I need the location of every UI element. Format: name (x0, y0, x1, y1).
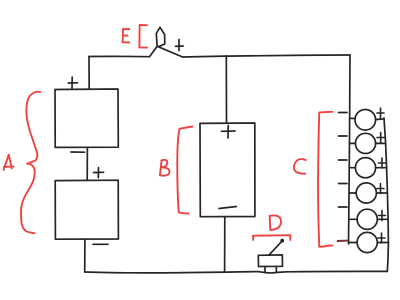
cell C6 minus label (338, 240, 348, 242)
wire B top riser (225, 56, 227, 123)
battery A1 plus label (68, 77, 77, 88)
cell C4 minus label (339, 183, 348, 185)
label D letter (270, 215, 281, 229)
cell C5 left stub (349, 218, 357, 220)
cell C5 (357, 209, 377, 229)
cell C6 (357, 232, 377, 252)
wire right vertical / cells left bus (349, 55, 351, 244)
label E bracket (139, 25, 147, 48)
battery B minus label (219, 207, 236, 209)
wire rect1 top riser (88, 57, 90, 90)
cell C3 plus label (379, 158, 386, 168)
battery B plus label (222, 126, 236, 139)
label B letter (160, 160, 170, 176)
switch D right leg (275, 266, 277, 272)
cell C6 left stub (349, 242, 358, 244)
switch D left leg (264, 267, 266, 273)
plus label at switch output (176, 40, 184, 51)
label E letter (123, 29, 130, 42)
label A letter (4, 155, 14, 170)
label B bracket (177, 127, 192, 214)
cell C4 left stub (349, 192, 356, 194)
wire top right horizontal (183, 55, 351, 57)
cell C2 right stub (376, 142, 386, 144)
cell C2 plus label (377, 133, 385, 143)
cell C2 minus label (339, 135, 348, 137)
battery A1 minus label (71, 151, 85, 153)
cell C5 plus label (379, 211, 386, 221)
switch D lever knob (280, 239, 284, 243)
switch E left blade diagonal (150, 47, 158, 57)
cell C6 right stub (377, 242, 388, 244)
cell C4 right stub (376, 192, 387, 194)
cell C6 plus label (378, 233, 385, 243)
wire B bottom riser (224, 217, 226, 273)
cell C4 plus label (377, 184, 384, 194)
cell C1 plus label (377, 108, 384, 118)
cell C5 right stub (377, 218, 388, 220)
battery A2 minus label (93, 243, 108, 245)
wire bottom horizontal (85, 271, 388, 273)
wire rect2 bottom riser (84, 239, 86, 272)
label C bracket (318, 112, 332, 247)
wire rect1 to rect2 (86, 147, 88, 180)
cell C1 right stub (376, 118, 384, 121)
cell C1 (355, 110, 376, 131)
cell C3 minus label (339, 159, 348, 161)
wire cells right bus (384, 118, 388, 271)
label C letter (294, 159, 306, 174)
label A brace (21, 92, 40, 234)
battery B box (200, 123, 255, 217)
cell C3 left stub (349, 167, 355, 169)
cell C3 right stub (376, 167, 387, 169)
battery A2 box (55, 180, 118, 239)
cell C5 minus label (339, 206, 348, 208)
cell C2 (355, 133, 375, 153)
wire top left horizontal (89, 55, 150, 57)
label D bracket (253, 235, 290, 240)
switch E blade pentagon (156, 27, 165, 47)
cell C2 left stub (349, 142, 355, 144)
switch E right diagonal (159, 47, 183, 57)
cell C1 minus label (339, 112, 348, 114)
cell C3 (355, 158, 375, 178)
battery A2 plus label (94, 168, 104, 178)
cell C1 left stub (350, 117, 356, 119)
cell C4 (356, 183, 376, 203)
battery A1 box (55, 89, 118, 147)
switch D lever (269, 242, 282, 255)
switch D box (258, 255, 282, 267)
